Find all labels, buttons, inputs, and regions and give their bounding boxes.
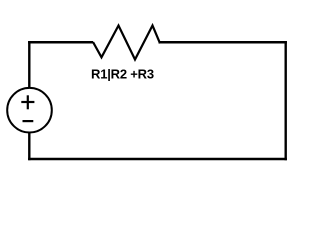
wire top-left segment [28,41,93,43]
wire right side [285,41,287,160]
minus terminal mark [23,120,34,122]
wire bottom [28,158,287,160]
wire top-right segment [159,41,287,43]
voltage source V1 [7,88,52,133]
wire left upper (top rail to source) [28,41,30,88]
plus terminal mark [21,95,34,109]
svg-text:R1|R2 +R3: R1|R2 +R3 [91,66,154,81]
resistor R1|R2+R3 [93,26,160,60]
wire left lower (source to bottom rail) [28,132,30,160]
